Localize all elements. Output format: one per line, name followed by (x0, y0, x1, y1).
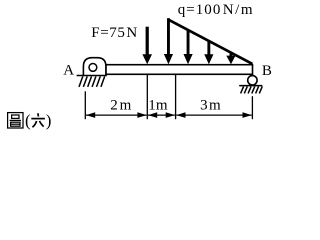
extension line below A (84, 91, 86, 119)
load arrow 4 (226, 52, 235, 64)
svg-text:B: B (262, 63, 272, 79)
dimension line 3m with arrows (176, 112, 251, 118)
svg-text:N: N (126, 25, 137, 41)
dimension line 2m with arrows (86, 112, 147, 118)
force F arrow (142, 27, 152, 65)
load arrow 2 (183, 30, 192, 65)
caption glyph "tu" (figure) (8, 113, 23, 128)
ground line at A (77, 75, 107, 77)
distributed load hypotenuse (168, 19, 252, 64)
ground line at B (239, 85, 262, 87)
svg-text:): ) (46, 111, 52, 130)
ground hatching at B (241, 86, 263, 93)
dimension line 1m with arrows (148, 112, 175, 118)
extension line below F (146, 75, 148, 119)
svg-text:m: m (209, 97, 221, 113)
svg-text:2: 2 (110, 98, 118, 114)
load arrow 1 (left edge) (164, 18, 173, 64)
svg-text:(: ( (25, 111, 31, 130)
pin support bracket at A (83, 58, 106, 76)
pin circle at A (89, 64, 97, 72)
svg-text:A: A (63, 62, 74, 78)
roller circle at B (248, 76, 257, 85)
extension line below B (251, 96, 253, 119)
svg-text:3: 3 (200, 97, 208, 113)
svg-text:F=75: F=75 (91, 25, 125, 41)
caption glyph "six" (31, 113, 45, 127)
svg-text:N/m: N/m (223, 2, 254, 18)
beam AB (106, 65, 253, 75)
ground hatching at A (79, 76, 105, 87)
svg-text:1: 1 (148, 97, 156, 113)
load arrow 3 (204, 41, 213, 65)
extension line at load start (175, 75, 177, 119)
svg-text:q=100: q=100 (178, 2, 222, 18)
svg-text:m: m (156, 97, 168, 113)
svg-text:m: m (120, 98, 132, 114)
